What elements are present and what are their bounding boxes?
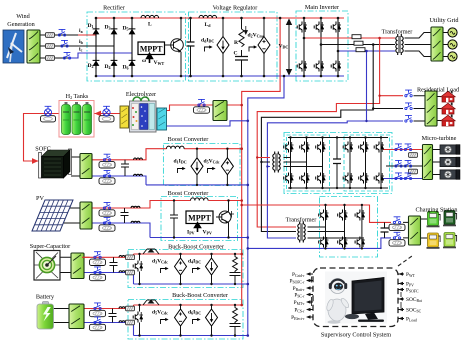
wire: residential row3 branch (blue) (367, 120, 404, 122)
grid-side inverter IGBTs bottom (319, 237, 329, 248)
wire: phase B inverter to transformer (black) (321, 44, 395, 46)
dual converter inner box right (344, 135, 390, 191)
wire: SOFC row red rail (92, 149, 163, 160)
inverter IGBT bottom row (297, 61, 307, 72)
svg-text:MPPT: MPPT (140, 45, 163, 54)
wire: phase A inverter to transformer (red) (304, 37, 395, 39)
MPPT box PV (186, 211, 213, 224)
micro-turbine switch 1b (404, 144, 411, 151)
wire: SC row red rail (82, 254, 134, 257)
arrow into H2 tanks (95, 111, 102, 117)
breaker phase B (354, 41, 363, 45)
svg-text:D2: D2 (88, 63, 94, 69)
utility grid green block (431, 27, 443, 61)
inverter IGBT top row (297, 22, 307, 33)
utility source 3 (448, 52, 457, 61)
svg-text:Battery: Battery (36, 294, 55, 301)
fuel pump green (427, 212, 441, 228)
svg-text:H2 Tanks: H2 Tanks (66, 93, 89, 100)
SC wires to bb1 (82, 256, 90, 258)
svg-text:d6IDC: d6IDC (188, 310, 201, 316)
boost1 source leads (197, 149, 227, 185)
battery green block (69, 304, 84, 329)
wire: rectifier diode leg 1 (95, 18, 97, 76)
BB1 current diamond (206, 258, 218, 275)
supervisory right arrows (398, 272, 404, 320)
BB2 shunt IGBT (133, 312, 143, 323)
wire: phase c generator to rectifier (40, 57, 68, 59)
micro-turbine switch 2a (395, 160, 402, 167)
dual left bridge IGBTs bottom (284, 173, 294, 184)
wire: transistor Q1 collector/emitter (180, 18, 182, 76)
wire: main DC top rail (red) (96, 17, 344, 19)
charging capacitor (381, 228, 389, 232)
svg-text:Charging Station: Charging Station (416, 207, 458, 214)
wire: grid-side inverter legs (326, 205, 362, 248)
svg-text:IPV: IPV (187, 230, 195, 236)
boost1 control arrow (178, 167, 186, 173)
wire: electrolyzer to DC bus (red) (167, 105, 242, 111)
wire: main DC bottom rail (blue) (96, 75, 344, 77)
wire: battery row blue rail (84, 323, 134, 336)
micro-turbine unit 2 (440, 157, 460, 167)
svg-text:D3: D3 (105, 25, 111, 31)
svg-text:Rectifier: Rectifier (103, 5, 125, 12)
svg-text:Ld: Ld (205, 22, 212, 28)
wire: transformer1 to utility grid (405, 33, 449, 57)
wire: SOFC row blue rail (92, 176, 146, 185)
SC series coil red (119, 255, 128, 257)
house 2 (441, 103, 455, 114)
svg-text:MPPT: MPPT (188, 214, 211, 223)
svg-text:VWT: VWT (154, 60, 165, 66)
wire: phase C inverter to transformer (blue) (338, 50, 395, 52)
svg-text:D4: D4 (105, 64, 111, 70)
svg-text:Boost Converter: Boost Converter (168, 136, 209, 143)
supervisory control dashed box (313, 268, 398, 327)
switch phase c (63, 52, 70, 59)
wire: H2 loop red (electrolyzer-tanks-SOFC) (24, 114, 121, 162)
resistor box phase b (46, 44, 55, 49)
BB2 control arrow1 (161, 318, 169, 324)
VR control arrow (205, 45, 213, 51)
dual converter inner box left (287, 135, 330, 191)
wire: rectifier diode leg 2 (113, 18, 115, 76)
battery series resistor blue (126, 320, 135, 325)
residential green block (425, 91, 437, 126)
wind generator image block (3, 30, 24, 63)
wire: PV row blue rail (92, 223, 150, 238)
wire: xfmrB to grid-side inverter (308, 227, 362, 238)
boost2 input capacitor (170, 201, 178, 238)
BB1 dependent diamond (175, 258, 187, 275)
wire: residential row1 branch (red) (380, 95, 403, 97)
green block wind (3ph) (27, 30, 40, 63)
svg-text:Main Inverter: Main Inverter (305, 4, 339, 11)
house 1 (441, 91, 455, 102)
battery series resistor red (126, 306, 135, 311)
boost1 dependent diamond (221, 158, 233, 175)
micro-turbine switch 1a (395, 144, 402, 151)
SOFC series coil blue (134, 174, 143, 176)
SOFC switch assembly red (99, 154, 115, 168)
boost1 control arrow2 (208, 167, 216, 173)
SOFC input capacitor (121, 160, 129, 176)
wire: battery row red rail (84, 305, 134, 309)
dual right bridge IGBTs bottom (343, 173, 353, 184)
MPPT box wind (138, 42, 165, 55)
BB2 current diamond (206, 309, 218, 326)
breaker phase C (356, 48, 365, 52)
SC switch assembly red (90, 252, 106, 266)
svg-text:d5VCdc: d5VCdc (152, 310, 168, 316)
wire: inverter leg 2 (320, 18, 322, 76)
SC series coil blue (119, 271, 128, 273)
VDC arrow (287, 20, 292, 75)
buck-boost converter 1 box (128, 250, 243, 288)
wire: grid-side inverter DC+ rail to charging (242, 205, 391, 222)
svg-text:d5VCdc: d5VCdc (204, 159, 220, 165)
svg-text:VPV: VPV (203, 230, 212, 236)
VR capacitor C (235, 57, 248, 61)
wire: phase b generator to rectifier (40, 45, 114, 47)
wire: PV panel to green block (58, 208, 80, 223)
wire: PV boost bottom rail (150, 237, 248, 239)
BB2 load resistor (230, 305, 241, 336)
svg-text:ddIDC: ddIDC (201, 38, 214, 44)
wire: charging DC link capacitor leads (384, 222, 386, 238)
electrolyzer yellow block (120, 106, 129, 128)
wire: BB1 bottom rail (134, 283, 248, 285)
svg-text:Boost Converter: Boost Converter (168, 190, 209, 197)
wire: micro-turbine row2 (black) (386, 165, 423, 167)
wire: charging green block to pumps (421, 219, 428, 238)
PV input capacitor (121, 208, 129, 223)
diode D2 (93, 57, 100, 69)
BB1 control arrow2 (193, 267, 201, 273)
svg-text:D1: D1 (88, 23, 94, 29)
wire: DC+ bus (red) (242, 18, 280, 305)
fuel pump dark green (443, 211, 457, 227)
wire: xfmrA to left bridge (284, 158, 323, 167)
buck-boost converter 2 box (128, 300, 243, 340)
wire: BB2 top rail (134, 304, 242, 306)
diode D1 (93, 26, 100, 38)
wire: VR resistor/capacitor leads (241, 18, 243, 76)
wire: SC box to green block (60, 257, 71, 272)
electrolyzer switch assembly (194, 99, 210, 113)
PV boost converter box (161, 197, 238, 241)
supervisory photo (325, 272, 387, 324)
VR dependent source diamond (258, 37, 270, 54)
inductor L (141, 15, 159, 18)
PV panel (32, 200, 73, 231)
SOFC green block (80, 154, 92, 179)
PV switch assembly blue (99, 217, 115, 231)
residential breaker 3 (405, 115, 412, 122)
micro-turbine unit 1 (440, 145, 460, 155)
residential breaker 1 (405, 90, 412, 97)
svg-text:C: C (234, 51, 238, 57)
BB1 load resistor (230, 254, 241, 284)
wire: PV boost top rail (161, 200, 242, 202)
svg-text:Micro-turbine: Micro-turbine (422, 135, 457, 142)
fuel pump yellow (427, 233, 441, 249)
battery series coil blue (119, 321, 128, 323)
wire: dual converter left legs (291, 138, 323, 189)
battery link capacitor (109, 309, 117, 323)
grid-side inverter IGBTs top (319, 210, 329, 221)
boost1 inductor (167, 146, 185, 149)
VR control arrow2 (249, 45, 257, 51)
svg-text:Buck-Boost Converter: Buck-Boost Converter (168, 244, 224, 251)
micro-turbine switch 3b (404, 173, 411, 180)
wire: VR dependent source leads (263, 18, 265, 76)
diode D3 (111, 26, 118, 38)
capacitor C1 (187, 42, 195, 46)
wire: SOFC boost top rail (163, 148, 241, 150)
transistor Q1 (165, 39, 184, 53)
SC series resistor blue (126, 270, 135, 275)
dual right bridge IGBTs top (343, 142, 353, 153)
micro-turbine switch 2b (404, 160, 411, 167)
VR current source diamond (217, 37, 229, 54)
fuel pump light green (443, 233, 457, 249)
wire: micro-turbine stubs (433, 150, 441, 175)
H2 valve 1 (41, 106, 56, 122)
residential breaker 2 (405, 103, 412, 110)
wire: dual DC-link capacitor leads (336, 138, 338, 189)
switch phase a (58, 29, 65, 36)
VR arrow d2 (244, 26, 247, 34)
wire: AC tap phase A (red) down and across (257, 38, 379, 227)
supervisory dashed link (398, 256, 412, 266)
battery series coil red (119, 307, 128, 309)
residential wires to block (414, 96, 442, 121)
electrolyzer cell (130, 97, 157, 132)
wire: battery to green block (53, 309, 69, 323)
super-capacitor box (34, 251, 60, 281)
SC series resistor red (126, 255, 135, 260)
H2 valve 2 (99, 106, 114, 122)
diode D4 (111, 57, 118, 69)
svg-text:PV: PV (36, 195, 44, 202)
boost1 current source diamond (191, 158, 203, 175)
transistor Q2 PV (216, 201, 234, 238)
VR resistor R (239, 29, 244, 47)
charging switch assembly 2 (389, 232, 405, 246)
wire: SOFC boost bottom rail (146, 184, 248, 186)
BB1 series switch on rail (143, 249, 159, 255)
svg-text:d3VCdc: d3VCdc (152, 259, 168, 265)
micro-turbine resistor 2 (409, 169, 418, 174)
wire: VR current source leads (222, 18, 224, 76)
diode D6 (129, 57, 136, 69)
wire: rectifier diode leg 3 (131, 18, 133, 76)
wire: grid-side inverter DC- rail to charging (248, 238, 391, 249)
svg-text:VDC: VDC (279, 44, 289, 50)
dashed boxes layer (87, 11, 392, 339)
transformer T1 (396, 34, 403, 55)
boost2 inductor (191, 198, 209, 201)
wire: dual converter bottom rail (288, 187, 388, 189)
svg-text:ω: ω (142, 58, 146, 64)
svg-text:Buck-Boost Converter: Buck-Boost Converter (172, 292, 228, 299)
grid-side inverter box (320, 197, 378, 258)
wire: AC tap phase C (blue) down and across (267, 51, 366, 238)
utility source 1 (448, 28, 457, 37)
battery icon (37, 302, 54, 330)
BB2 control arrow2 (193, 318, 201, 324)
wire: electrolyzer return (blue) (167, 121, 248, 126)
svg-text:SOFC: SOFC (35, 146, 50, 153)
dual converter outer box (284, 133, 392, 194)
svg-text:d1IDC: d1IDC (174, 159, 187, 165)
SOFC switch assembly blue (99, 170, 115, 184)
dual left bridge IGBTs top (284, 142, 294, 153)
SC switch assembly blue (90, 267, 106, 281)
wire: residential row2 branch (black) (373, 108, 403, 110)
house 3 (441, 115, 455, 126)
BB1 control arrow1 (161, 267, 169, 273)
micro-turbine unit 3 (440, 170, 460, 180)
PV series coil blue (131, 221, 140, 223)
transformer A (273, 152, 280, 173)
PV series coil red (131, 206, 140, 208)
SC green block (71, 253, 84, 279)
junction dots (95, 17, 340, 78)
utility source 2 (448, 40, 457, 49)
wire: capacitor C1 leads (190, 18, 192, 76)
wire: SC row blue rail (82, 273, 134, 285)
wire: dual converter right legs (350, 138, 381, 189)
svg-text:D6: D6 (123, 65, 129, 71)
wire: PV row red rail (92, 201, 161, 209)
BB2 dependent diamond (175, 309, 187, 326)
electrolyzer cyan block (157, 108, 167, 130)
svg-text:Electrolyzer: Electrolyzer (126, 91, 156, 98)
svg-text:Residential Load: Residential Load (417, 87, 460, 94)
micro-turbine switch 3a (395, 173, 402, 180)
SC link capacitor (110, 257, 118, 272)
svg-text:Transformer: Transformer (382, 29, 413, 36)
wire: DC- bus (blue) (248, 76, 284, 336)
svg-text:d2VCms: d2VCms (248, 33, 265, 39)
wire: phase a generator to rectifier (40, 34, 78, 36)
battery switch assembly blue (90, 317, 106, 331)
PV switch assembly red (99, 202, 115, 216)
breaker phase A (352, 35, 361, 39)
MPPT input arrow wind (147, 54, 153, 64)
PV green block (80, 202, 92, 229)
BB2 series switch on rail (143, 300, 159, 306)
wire: charging switches to green block (403, 222, 409, 238)
arrow into SOFC (32, 158, 39, 164)
main inverter box (296, 11, 348, 81)
SOFC stack (39, 149, 72, 178)
voltage regulator box (189, 12, 278, 81)
svg-text:D5: D5 (123, 26, 129, 32)
svg-text:Generation: Generation (7, 21, 35, 28)
wire: BB1 top rail (134, 253, 242, 255)
BB1 shunt IGBT (133, 261, 143, 272)
micro-turbine resistor 1 (409, 153, 418, 158)
diode D5 (129, 26, 136, 38)
svg-text:Utility Grid: Utility Grid (429, 17, 459, 24)
svg-text:d4IDC: d4IDC (188, 259, 201, 265)
wire: AC tap phase B (black) down and across (261, 45, 373, 232)
inductor Ld (199, 15, 217, 18)
electrolyzer green block (213, 101, 227, 121)
svg-text:Wind: Wind (16, 13, 30, 20)
wire: SOFC to green block (71, 157, 80, 176)
wire: inverter leg 1 (303, 18, 305, 76)
resistor box phase a (46, 33, 55, 38)
svg-text:Super-Capacitor: Super-Capacitor (30, 243, 70, 250)
wire: inverter leg 3 (337, 18, 339, 76)
svg-text:L: L (148, 22, 152, 28)
wire: transformer A taps (red/black/blue) (257, 157, 270, 159)
micro-turbine green block (423, 145, 433, 180)
svg-text:Supervisory Control System: Supervisory Control System (321, 332, 391, 339)
transformer B (298, 222, 305, 243)
SOFC series coil red (134, 158, 143, 160)
rectifier box (87, 12, 186, 81)
svg-text:ia: ia (79, 28, 83, 34)
H2 tanks box (59, 101, 94, 138)
svg-text:Voltage Regulator: Voltage Regulator (213, 5, 258, 12)
charging green block (409, 216, 421, 245)
svg-text:ic: ic (79, 47, 83, 53)
wire: BB2 bottom rail (134, 335, 248, 337)
dual DC link capacitor (333, 159, 341, 164)
supervisory left arrows (306, 272, 313, 319)
wire: dual converter top rail (288, 137, 388, 139)
wire: micro-turbine row1 (red) (383, 149, 423, 151)
battery switch assembly red (90, 303, 106, 317)
MPPT PV input arrow (195, 223, 201, 232)
charging switch assembly 1 (389, 217, 405, 231)
svg-text:Transformer: Transformer (286, 217, 317, 224)
switch phase b (61, 40, 68, 47)
resistor box phase c (46, 56, 55, 61)
wire: micro-turbine row3 (blue) (383, 178, 423, 180)
SOFC boost converter box (163, 144, 240, 186)
